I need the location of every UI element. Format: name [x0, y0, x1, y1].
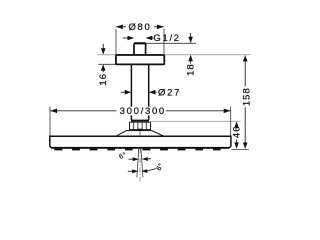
extension line dia80 left [115, 29, 117, 54]
dim 6deg upper [129, 158, 134, 160]
center line in cone [139, 131, 141, 136]
svg-text:Ø27: Ø27 [158, 87, 181, 98]
dim 16 [102, 44, 104, 49]
svg-text:158: 158 [241, 87, 252, 106]
svg-text:Ø80: Ø80 [128, 22, 151, 33]
spray line left [137, 149, 139, 178]
nozzle dashes [55, 149, 221, 151]
cone plateau [127, 130, 152, 132]
pipe [130, 64, 132, 119]
svg-text:16: 16 [98, 73, 109, 86]
svg-text:G1/2: G1/2 [153, 33, 180, 44]
dim G1/2 [123, 37, 129, 39]
svg-text:18: 18 [186, 63, 197, 76]
svg-text:46: 46 [232, 126, 243, 139]
ceiling reference line [98, 54, 251, 56]
threaded stub G1/2 [134, 43, 146, 55]
dim dia80 [116, 26, 164, 28]
connector nut [130, 120, 151, 130]
dim 18 [190, 33, 192, 38]
dim 158 [243, 55, 248, 61]
dim 46 [234, 121, 239, 127]
dim dia27 [121, 91, 126, 93]
ceiling flange [116, 55, 164, 64]
extension line dia80 right [163, 29, 165, 54]
extension line nozzle bottom [232, 148, 249, 150]
cone right slope [152, 131, 164, 137]
svg-text:300/300: 300/300 [120, 106, 166, 117]
extension line 300 left [49, 107, 51, 136]
extension line 300 right [230, 107, 232, 136]
cone left slope [116, 131, 127, 137]
extension line flange bottom [98, 63, 115, 65]
spray line right [141, 149, 143, 178]
shower head slab [50, 136, 231, 148]
extension line nut top (46 dim) [150, 120, 241, 122]
extension line stub top [146, 42, 196, 44]
center wedge [137, 129, 143, 131]
dim 300/300 [50, 110, 117, 112]
spray centre line [139, 149, 141, 182]
dim 6deg lower [128, 170, 133, 172]
